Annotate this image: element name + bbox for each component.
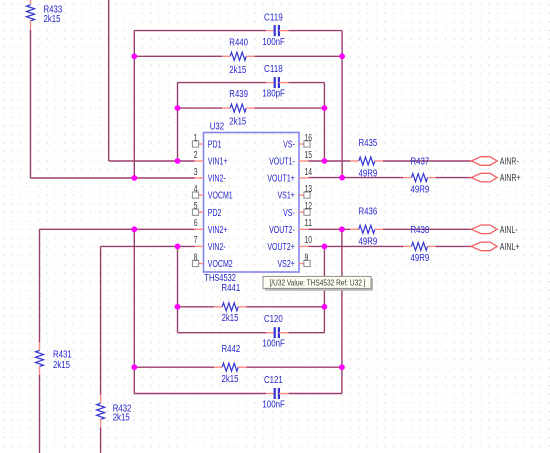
wire [39, 229, 41, 342]
wire [133, 31, 135, 178]
svg-text:THS4532: THS4532 [204, 273, 236, 284]
wire [309, 160, 351, 162]
junction [175, 105, 181, 111]
svg-text:VOCM1: VOCM1 [208, 191, 233, 202]
pin 15 [299, 160, 309, 162]
wire [309, 228, 351, 230]
svg-text:C118: C118 [264, 64, 283, 75]
svg-text:2k15: 2k15 [222, 313, 239, 324]
svg-text:R437: R437 [411, 156, 430, 167]
junction [131, 53, 137, 59]
resistor R433 [30, 0, 32, 5]
svg-text:C119: C119 [264, 12, 283, 23]
svg-text:VS-: VS- [283, 140, 295, 151]
wire [178, 82, 267, 84]
wire [177, 83, 179, 161]
svg-text:6: 6 [194, 218, 198, 229]
pin 8 [199, 263, 204, 265]
pin 16 [299, 143, 304, 145]
wire [341, 31, 343, 178]
junction [339, 175, 345, 181]
junction [322, 244, 328, 250]
svg-text:10: 10 [305, 235, 313, 246]
svg-text:R436: R436 [359, 207, 378, 218]
resistor R440 [222, 55, 230, 57]
svg-text:180pF: 180pF [262, 89, 285, 100]
port AINL- [471, 225, 497, 234]
junction [131, 364, 137, 370]
wire [178, 306, 215, 308]
svg-text:49R9: 49R9 [411, 184, 430, 195]
wire [309, 245, 404, 247]
pin 3 [195, 177, 204, 179]
wire [178, 332, 267, 334]
svg-text:VOCM2: VOCM2 [208, 259, 233, 270]
wire [309, 177, 404, 179]
svg-text:2: 2 [194, 150, 198, 161]
svg-text:VIN1+: VIN1+ [208, 157, 228, 168]
svg-text:VOUT2+: VOUT2+ [267, 242, 295, 253]
port AINL+ [471, 242, 497, 251]
svg-text:PD1: PD1 [208, 140, 222, 151]
pin 2 [195, 160, 204, 162]
junction [131, 175, 137, 181]
pin 10 [299, 245, 309, 247]
svg-text:R439: R439 [229, 89, 248, 100]
svg-text:9: 9 [305, 252, 309, 263]
svg-text:VS2+: VS2+ [278, 259, 295, 270]
svg-text:R438: R438 [411, 225, 430, 236]
svg-text:AINL-: AINL- [500, 225, 518, 236]
svg-text:VOUT1-: VOUT1- [269, 157, 295, 168]
svg-text:C120: C120 [264, 314, 283, 325]
port AINR- [471, 157, 497, 166]
svg-text:VS-: VS- [283, 208, 295, 219]
wire [40, 228, 196, 230]
wire [100, 246, 102, 394]
svg-text:49R9: 49R9 [411, 253, 430, 264]
svg-text:5: 5 [194, 201, 198, 212]
svg-text:16: 16 [305, 133, 313, 144]
svg-text:R435: R435 [359, 138, 378, 149]
svg-text:7: 7 [194, 235, 198, 246]
svg-text:15: 15 [305, 150, 313, 161]
wire [177, 246, 179, 332]
wire [134, 30, 266, 32]
pin 12 [299, 211, 304, 213]
svg-text:11: 11 [305, 218, 313, 229]
svg-text:AINL+: AINL+ [500, 242, 520, 253]
resistor R442 [214, 366, 222, 368]
capacitor C118 [266, 82, 275, 84]
resistor R439 [222, 107, 230, 109]
svg-text:49R9: 49R9 [359, 237, 378, 248]
svg-text:VOUT1+: VOUT1+ [267, 174, 295, 185]
svg-text:R440: R440 [229, 37, 248, 48]
capacitor C121 [266, 393, 275, 395]
svg-text:2k15: 2k15 [44, 14, 61, 25]
junction [322, 158, 328, 164]
junction [322, 105, 328, 111]
resistor R431 [39, 342, 41, 351]
svg-text:U32: U32 [210, 121, 225, 132]
pin 4 [199, 194, 204, 196]
svg-text:R431: R431 [53, 350, 72, 361]
wire [134, 366, 214, 368]
resistor R441 [214, 306, 222, 308]
svg-text:[/U32 Value: THS4532 Ref: U32: [/U32 Value: THS4532 Ref: U32 ] [270, 278, 366, 288]
svg-text:R442: R442 [222, 344, 241, 355]
pin 6 [195, 228, 204, 230]
junction [131, 226, 137, 232]
resistor R432 [100, 395, 102, 404]
svg-text:VS1+: VS1+ [278, 191, 295, 202]
junction [339, 53, 345, 59]
junction [339, 364, 345, 370]
svg-text:2k15: 2k15 [229, 117, 246, 128]
resistor R435 [350, 160, 359, 162]
junction [175, 158, 181, 164]
pin 9 [299, 263, 304, 265]
svg-text:100nF: 100nF [262, 399, 285, 410]
op-amp U32 [204, 133, 300, 273]
pin 1 [199, 143, 204, 145]
svg-text:2k15: 2k15 [222, 374, 239, 385]
wire [341, 229, 343, 393]
junction [339, 226, 345, 232]
pin 14 [299, 177, 309, 179]
wire [108, 0, 110, 161]
junction [322, 304, 328, 310]
svg-text:2k15: 2k15 [113, 412, 130, 423]
pin 13 [299, 194, 304, 196]
svg-text:PD2: PD2 [208, 208, 222, 219]
pin 5 [199, 211, 204, 213]
wire [133, 229, 135, 393]
capacitor C119 [266, 30, 275, 32]
wire [101, 245, 195, 247]
svg-text:1: 1 [194, 133, 198, 144]
pin 11 [299, 228, 309, 230]
svg-text:VIN2+: VIN2+ [208, 225, 228, 236]
svg-text:C121: C121 [264, 375, 283, 386]
wire [134, 393, 266, 395]
wire [134, 55, 222, 57]
svg-text:4: 4 [194, 184, 198, 195]
wire [323, 83, 325, 161]
svg-text:100nF: 100nF [262, 339, 285, 350]
junction [175, 244, 181, 250]
svg-text:2k15: 2k15 [229, 65, 246, 76]
capacitor C120 [266, 332, 275, 334]
svg-text:3: 3 [194, 167, 198, 178]
resistor R437 [403, 177, 412, 179]
svg-text:AINR+: AINR+ [500, 173, 521, 184]
svg-text:14: 14 [305, 167, 313, 178]
resistor R438 [403, 245, 412, 247]
junction [175, 304, 181, 310]
svg-text:100nF: 100nF [262, 37, 285, 48]
svg-text:2k15: 2k15 [53, 360, 70, 371]
svg-text:13: 13 [305, 184, 313, 195]
port AINR+ [471, 173, 497, 182]
wire [323, 246, 325, 332]
tooltip [265, 278, 373, 290]
svg-text:R441: R441 [222, 283, 241, 294]
svg-text:8: 8 [194, 252, 198, 263]
wire [30, 30, 32, 178]
svg-text:VIN2-: VIN2- [208, 242, 226, 253]
svg-text:49R9: 49R9 [359, 168, 378, 179]
svg-text:VOUT2-: VOUT2- [269, 225, 295, 236]
wire [178, 107, 223, 109]
svg-text:12: 12 [305, 201, 313, 212]
resistor R436 [350, 228, 359, 230]
pin 7 [195, 245, 204, 247]
svg-text:VIN2-: VIN2- [208, 174, 226, 185]
svg-text:AINR-: AINR- [500, 156, 519, 167]
